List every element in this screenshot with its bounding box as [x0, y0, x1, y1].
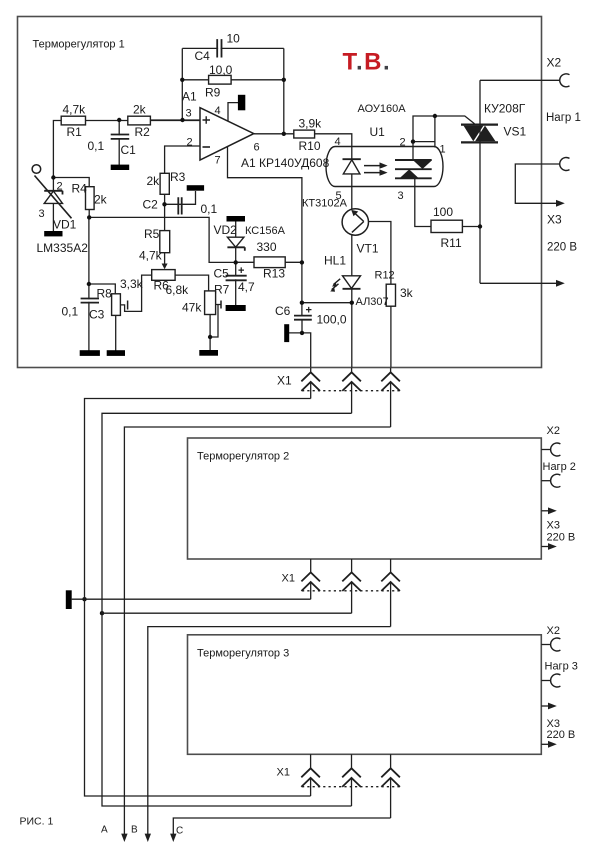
svg-text:330: 330 [257, 240, 277, 254]
svg-text:R8: R8 [97, 287, 113, 301]
wire R6 left to R8 wiper [120, 275, 152, 311]
svg-text:VD2: VD2 [214, 223, 238, 237]
node R4 bottom [87, 215, 91, 219]
resistor R2 [128, 116, 151, 125]
node HL1 bottom [350, 301, 354, 305]
optocoupler U1 body [326, 147, 443, 187]
wire VD2 C5 vertical [235, 221, 237, 306]
wire R8 bottom to ground [115, 315, 117, 351]
wire HL1 to X1 pin2 vertical [351, 187, 353, 368]
wire R13 horizontal [236, 261, 302, 263]
node feedback left [180, 78, 184, 82]
svg-text:Терморегулятор 1: Терморегулятор 1 [33, 39, 125, 51]
svg-text:КУ208Г: КУ208Г [484, 102, 526, 116]
connector X1 box2 pin1 [301, 559, 320, 599]
svg-text:220 В: 220 В [547, 242, 577, 254]
node C6 bottom [300, 331, 304, 335]
svg-text:C1: C1 [121, 143, 137, 157]
wire feedback R9 [182, 79, 283, 81]
wire C2 branch [165, 191, 196, 204]
svg-text:R9: R9 [205, 86, 221, 100]
svg-text:LM335A2: LM335A2 [37, 241, 89, 255]
svg-text:X2: X2 [547, 625, 560, 637]
svg-text:220 В: 220 В [547, 532, 576, 544]
svg-text:VT1: VT1 [357, 242, 379, 256]
svg-text:R13: R13 [263, 267, 285, 281]
svg-text:R12: R12 [375, 270, 395, 282]
wire box3 X2 stub2 [541, 680, 551, 682]
LED HL1 cathode bar [343, 288, 361, 290]
wire box2 X2 stub1 [541, 449, 551, 451]
ground under C1 [111, 165, 130, 170]
triac VS1 right triangle [475, 126, 495, 142]
ground under C3 [80, 350, 100, 356]
wire C1 down [118, 120, 120, 165]
svg-text:2k: 2k [147, 174, 161, 188]
triac VS1 left triangle [464, 126, 484, 142]
arrow X3 box3 [548, 703, 557, 710]
power bar VD2 top [227, 216, 246, 222]
svg-text:6,8k: 6,8k [166, 283, 190, 297]
svg-text:3,3k: 3,3k [120, 277, 144, 291]
svg-text:+: + [238, 265, 244, 277]
zener VD2 cathode bar [227, 247, 244, 251]
arrow X3 box2 [548, 507, 557, 514]
svg-text:HL1: HL1 [324, 254, 346, 268]
sensor VD1 diode triangle [44, 191, 62, 203]
svg-text:3: 3 [186, 108, 192, 120]
wire bus C [124, 427, 390, 835]
arrow 220В box1 [556, 280, 565, 287]
triac VS1 bars [461, 125, 498, 143]
capacitor C4 [217, 39, 221, 57]
resistor R4 [86, 187, 95, 210]
connector X2 box3 pin2 socket [551, 674, 561, 687]
capacitor C5 [226, 276, 247, 281]
wire tap bus B to box2 pin2 [102, 612, 352, 614]
wire box3 220В stub [541, 743, 548, 745]
arrow phase B [145, 834, 151, 842]
svg-text:2k: 2k [133, 103, 147, 117]
svg-text:Нагр 1: Нагр 1 [546, 112, 581, 124]
svg-text:0,1: 0,1 [201, 202, 218, 216]
connector X1 box1 pin3 [381, 368, 400, 427]
svg-text:R2: R2 [135, 125, 151, 139]
block Терморегулятор 1 [18, 17, 542, 368]
transistor VT1 emitter arrowhead [351, 210, 358, 216]
svg-text:1: 1 [440, 144, 446, 156]
node C3-R8 [87, 282, 91, 286]
svg-text:C4: C4 [195, 49, 211, 63]
svg-text:А: А [101, 825, 108, 836]
arrow phase A [121, 834, 127, 842]
op-amp A1 triangle [200, 108, 254, 160]
optocoupler U1 LED bar [343, 158, 361, 160]
svg-text:R11: R11 [441, 236, 462, 250]
wire box2 X3 stub [541, 510, 548, 512]
wire R1 input from VD1 node [53, 121, 61, 178]
wire feedback left vertical [181, 48, 183, 120]
svg-text:100,0: 100,0 [317, 313, 347, 327]
svg-text:2: 2 [57, 181, 63, 193]
dotted tie X1 box1 [302, 390, 400, 392]
resistor R13 [254, 257, 285, 268]
resistor R7 [205, 291, 216, 315]
wire opamp output through R10 to opto pin4 [254, 134, 352, 187]
wire R4 node down to C3 and ground [88, 217, 90, 351]
wire tap bar to box2 pin1 [72, 598, 311, 600]
capacitor C6 [294, 316, 312, 320]
LED HL1 emission arrows [332, 279, 341, 290]
svg-text:Терморегулятор 3: Терморегулятор 3 [197, 648, 289, 660]
svg-text:0,1: 0,1 [88, 139, 105, 153]
node feedback right [282, 78, 286, 82]
op-amp plus sign [203, 116, 211, 124]
svg-text:X2: X2 [547, 56, 562, 70]
wire bus B [102, 413, 352, 806]
svg-text:3,9k: 3,9k [299, 117, 323, 131]
terminal bar junction [66, 590, 72, 609]
node bus B tap [100, 611, 104, 615]
node R3-C2 [162, 202, 166, 206]
wire node to R8 top [89, 284, 115, 294]
node VD1 top [51, 175, 55, 179]
node opto pin2 [411, 139, 415, 143]
node R11-VS1 [478, 224, 482, 228]
svg-text:6: 6 [254, 142, 260, 154]
connector X2 pin2 socket [560, 158, 570, 171]
resistor R5 [160, 231, 170, 253]
svg-text:C5: C5 [214, 267, 230, 281]
connector X2 box2 pin1 socket [551, 443, 561, 456]
svg-text:X3: X3 [547, 520, 560, 532]
wire box2 pin3 to phase B arrow [148, 627, 391, 835]
wire R7 wiper tick [220, 301, 222, 309]
svg-text:0,1: 0,1 [62, 305, 79, 319]
connector X1 box3 pin2 [342, 754, 361, 806]
node R1-C1-R2 [117, 118, 121, 122]
svg-text:10,0: 10,0 [209, 63, 233, 77]
connector X1 box1 pin2 [342, 368, 361, 413]
svg-text:Терморегулятор 2: Терморегулятор 2 [197, 451, 289, 463]
resistor R3 [160, 173, 169, 194]
connector X1 box3 pin3 [381, 754, 400, 818]
wire opamp pin4 to power bar [228, 103, 238, 122]
resistor R1 [61, 116, 85, 125]
wire box3 pin3 to phase C arrow [173, 818, 390, 835]
wire opamp pin3 rail [150, 119, 200, 121]
wire opamp pin7 down to R13 node and C6 [228, 146, 302, 316]
wire Нагр1 loop [515, 164, 560, 203]
node VD2-C5 [234, 260, 238, 264]
connector X1 box1 pin1 [301, 368, 320, 399]
wire box2 220В stub [541, 546, 548, 548]
svg-text:R5: R5 [144, 227, 160, 241]
wire opto pin2 loop [413, 116, 475, 161]
power bar opamp pin4 [238, 95, 245, 111]
wire VD1 node to R4 [53, 178, 89, 218]
svg-text:КС156А: КС156А [245, 225, 286, 237]
op-amp minus sign [203, 146, 211, 148]
wire R1-R2 top rail [61, 120, 200, 122]
wire box2 X2 stub2 [541, 480, 551, 482]
resistor R10 [294, 130, 315, 138]
wire box3 X3 stub [541, 705, 548, 707]
node opamp output [282, 132, 286, 136]
arrow 220В box3 [548, 741, 557, 748]
node C6 top [300, 301, 304, 305]
svg-text:3: 3 [39, 208, 45, 220]
svg-text:VS1: VS1 [504, 125, 527, 139]
svg-text:47k: 47k [182, 301, 202, 315]
optocoupler U1 LED triangle [343, 160, 360, 174]
wire 220В bottom arrow [480, 282, 556, 284]
ground under R8 [107, 350, 125, 356]
arrow phase C [170, 834, 176, 842]
LED HL1 triangle [343, 276, 361, 289]
svg-text:Нагр 3: Нагр 3 [545, 661, 578, 673]
svg-text:C3: C3 [89, 308, 105, 322]
resistor R12 [386, 284, 395, 306]
wire C6 bottom to X1 pin1 [289, 320, 311, 368]
svg-text:R10: R10 [299, 139, 321, 153]
zener VD2 triangle [227, 237, 244, 247]
wire opto pin3 to R11 [415, 178, 431, 226]
node R7 ground [208, 335, 212, 339]
dotted tie X1 box2 [302, 590, 400, 592]
node opamp pin3 [180, 118, 184, 122]
connector X2 pin1 socket [560, 74, 570, 87]
svg-text:7: 7 [215, 155, 221, 167]
svg-text:R4: R4 [72, 182, 88, 196]
wire VS1 main vertical [479, 80, 481, 283]
node bus A tap [82, 597, 86, 601]
wire VD1 vertical [52, 178, 54, 232]
svg-text:X1: X1 [277, 374, 292, 388]
wire R3 chain: opamp pin2 down through R3, R5 to R6 wiper [165, 146, 200, 266]
power bar C6 left [284, 324, 289, 342]
svg-text:2: 2 [187, 137, 193, 149]
potentiometer R6 wiper arrow [162, 264, 168, 270]
svg-text:VD1: VD1 [53, 218, 77, 232]
sensor VD1 cathode bar [44, 191, 62, 195]
svg-text:R7: R7 [214, 283, 230, 297]
wire bus A [85, 399, 311, 797]
svg-text:2k: 2k [94, 193, 108, 207]
svg-text:С: С [176, 826, 183, 837]
svg-text:100: 100 [433, 205, 453, 219]
ground under R7 [199, 350, 218, 356]
svg-text:4: 4 [215, 105, 221, 117]
wire R12 bottom to X1 pin3 [390, 306, 392, 368]
svg-text:R1: R1 [67, 125, 83, 139]
optocoupler U1 triac bars [395, 160, 432, 178]
svg-text:Нагр 2: Нагр 2 [543, 461, 576, 473]
capacitor C3 [81, 299, 99, 303]
power bar C2 [187, 185, 204, 191]
optocoupler U1 triac up triangle [400, 169, 419, 178]
ground under VD1 [44, 231, 62, 236]
potentiometer R6 body [152, 270, 175, 281]
optocoupler U1 triac down triangle [413, 160, 432, 169]
wire R8 wiper tick [127, 301, 129, 310]
wire R11 to VS1 [462, 226, 480, 228]
svg-text:Т.В.: Т.В. [343, 48, 392, 75]
svg-text:220 В: 220 В [547, 729, 576, 741]
transistor VT1 circle [342, 209, 368, 235]
wire R7 bottom to ground [209, 315, 211, 351]
wire X2 top stub [480, 79, 560, 81]
dotted tie X1 box3 [302, 786, 400, 788]
connector X2 box3 pin1 socket [551, 638, 561, 651]
svg-text:АОУ160А: АОУ160А [358, 103, 407, 115]
sensor VD1 terminal circle [32, 165, 41, 174]
svg-text:A1: A1 [182, 90, 197, 104]
svg-text:4: 4 [335, 136, 341, 148]
wire box3 X2 stub1 [541, 644, 551, 646]
wire VT1 base to R12 [364, 222, 391, 285]
arrow X3 box1 load return [556, 200, 565, 207]
wire R6 right to R7 top [175, 275, 209, 291]
svg-text:РИС. 1: РИС. 1 [20, 816, 54, 828]
optocoupler U1 light arrows [364, 166, 382, 173]
svg-text:C2: C2 [143, 198, 159, 212]
svg-text:АЛ307: АЛ307 [356, 296, 389, 308]
svg-text:X1: X1 [277, 767, 290, 779]
svg-text:А1 КР140УД608: А1 КР140УД608 [241, 156, 330, 170]
connector X1 box3 pin1 [301, 754, 320, 796]
wire feedback top C4 [182, 47, 283, 49]
connector X1 box2 pin3 [381, 559, 400, 627]
wire C6 node to HL1 node [302, 302, 352, 304]
capacitor C1 [111, 135, 130, 139]
svg-text:X1: X1 [282, 573, 295, 585]
resistor R9 [209, 75, 232, 84]
svg-text:C6: C6 [275, 304, 291, 318]
resistor R11 [431, 220, 462, 232]
capacitor C2 [178, 197, 181, 214]
svg-text:КТ3102А: КТ3102А [302, 198, 348, 210]
svg-text:4,7: 4,7 [238, 280, 255, 294]
sensor VD1 adjust diagonal [35, 176, 72, 219]
wire R7 wiper hook to bottom [210, 305, 221, 338]
resistor R8 [112, 294, 121, 316]
svg-text:U1: U1 [370, 125, 386, 139]
svg-text:R3: R3 [170, 170, 186, 184]
svg-text:X3: X3 [547, 213, 562, 227]
wire R4 bottom to VD2 node [89, 217, 302, 262]
svg-text:4,7k: 4,7k [139, 249, 163, 263]
svg-text:2: 2 [400, 137, 406, 149]
node R13 right [300, 260, 304, 264]
svg-text:4,7k: 4,7k [63, 103, 87, 117]
arrow 220В box2 [548, 543, 557, 550]
svg-text:3k: 3k [400, 286, 414, 300]
connector X1 box2 pin2 [342, 559, 361, 613]
svg-text:10: 10 [227, 32, 241, 46]
svg-text:В: В [131, 825, 138, 836]
connector X2 box2 pin2 socket [551, 474, 561, 487]
ground under C5 [226, 305, 246, 311]
svg-text:3: 3 [398, 190, 404, 202]
node opto pin1 [433, 114, 437, 118]
wire feedback right vertical [283, 48, 285, 133]
block Терморегулятор 2 [188, 438, 542, 559]
block Терморегулятор 3 [188, 635, 542, 755]
transistor VT1 emitter and collector [352, 211, 364, 233]
svg-text:+: + [306, 305, 312, 317]
svg-text:X2: X2 [547, 425, 560, 437]
junction dots box1 [51, 78, 482, 616]
